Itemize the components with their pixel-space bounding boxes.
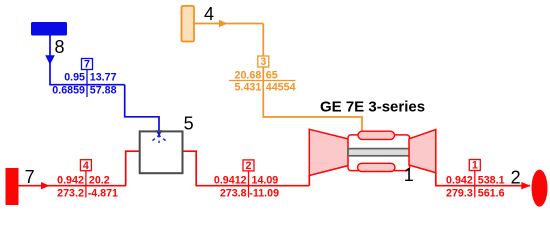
gas turbine 1 bottom combustor can (358, 163, 396, 171)
pipe 3 table row separator (229, 80, 295, 82)
node 7 box (82, 59, 93, 70)
svg-text:20.2: 20.2 (89, 174, 110, 186)
node 3 box (258, 56, 269, 67)
wire pipe 3 horizontal from source 4 (194, 23, 263, 25)
sink 2 (red exhaust sink) (532, 170, 548, 207)
svg-text:0.942: 0.942 (57, 174, 84, 186)
svg-text:1: 1 (472, 160, 478, 172)
svg-text:1: 1 (404, 165, 414, 185)
wire pipe 1 from turbine to sink (436, 172, 530, 186)
svg-text:4: 4 (204, 4, 214, 24)
svg-text:0.6859: 0.6859 (52, 85, 85, 97)
svg-text:3: 3 (260, 56, 266, 68)
wire pipe 3 vertical (table column divider) (263, 67, 362, 131)
svg-text:5.431: 5.431 (235, 82, 262, 94)
svg-text:538.1: 538.1 (478, 174, 505, 186)
svg-text:2: 2 (511, 167, 521, 187)
pipe 1 table divider (474, 171, 476, 198)
svg-text:2: 2 (246, 160, 252, 172)
pipe 4 table divider (85, 171, 87, 198)
svg-text:7: 7 (84, 59, 90, 71)
wire pipe 3 vertical (262, 24, 264, 57)
svg-text:273.8: 273.8 (220, 187, 247, 199)
flow arrow pipe 3 (right) (219, 20, 228, 27)
combustor 5 box (140, 131, 183, 173)
wire pipe 8 elbow to combustor (125, 85, 159, 131)
node 4 box (80, 160, 91, 171)
svg-text:0.9412: 0.9412 (214, 174, 247, 186)
wire pipe 8 vertical from source 8 (49, 36, 51, 85)
pipe 7 table divider (86, 70, 88, 98)
flow arrow pipe 8 (down) (45, 55, 55, 65)
svg-text:GE 7E 3-series: GE 7E 3-series (320, 99, 425, 116)
svg-text:273.2: 273.2 (57, 187, 84, 199)
svg-text:44554: 44554 (266, 82, 296, 94)
svg-text:561.6: 561.6 (478, 187, 505, 199)
source 8 (blue fuel source) (31, 22, 67, 36)
wire pipe 8 horizontal (table row separator) (49, 84, 125, 86)
wire stub into compressor inlet (308, 175, 310, 186)
svg-text:-4.871: -4.871 (88, 187, 118, 199)
fuel sprayer injector into combustor (150, 130, 168, 143)
svg-text:7: 7 (25, 167, 35, 187)
flow arrow pipe 4 (right) (41, 182, 50, 189)
node 2 box (243, 160, 254, 171)
svg-text:0.95: 0.95 (64, 72, 85, 84)
wire pipe 2 from combustor to compressor (183, 151, 309, 186)
node 1 box (469, 160, 480, 171)
svg-text:20.68: 20.68 (235, 70, 262, 82)
gas turbine 1 top combustor can (358, 131, 395, 139)
pipe 2 table divider (248, 171, 250, 198)
gas turbine 1 casing (348, 135, 410, 171)
svg-text:0.942: 0.942 (446, 174, 473, 186)
svg-text:14.09: 14.09 (252, 174, 279, 186)
svg-text:-11.09: -11.09 (249, 187, 279, 199)
gas turbine 1 shaft (348, 149, 410, 156)
svg-text:8: 8 (55, 37, 65, 57)
svg-text:279.3: 279.3 (446, 187, 473, 199)
svg-text:13.77: 13.77 (90, 72, 117, 84)
gas turbine 1 compressor (309, 129, 348, 175)
wire pipe 4 riser to combustor (126, 151, 139, 186)
svg-text:57.88: 57.88 (90, 85, 117, 97)
svg-text:65: 65 (266, 70, 278, 82)
flow arrow pipe 1 (right) (521, 182, 530, 189)
svg-text:4: 4 (83, 160, 89, 172)
wire pipe 4 horizontal from source 7 (18, 185, 126, 187)
source 4 (orange fuel/gas source) (182, 6, 195, 42)
svg-text:5: 5 (184, 113, 194, 133)
gas turbine 1 turbine (409, 130, 436, 173)
source 7 (red air source) (6, 169, 18, 205)
